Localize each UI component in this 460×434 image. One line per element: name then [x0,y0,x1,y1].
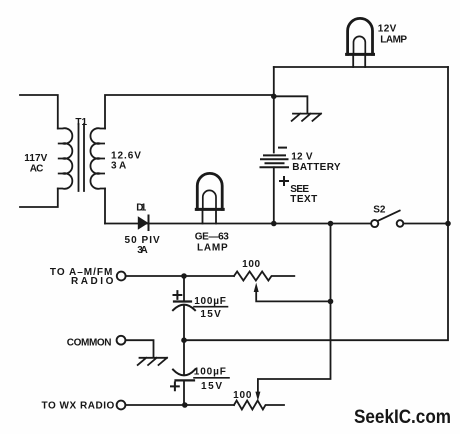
wire ground branch [274,96,308,113]
lamp 12V leads [353,56,365,67]
junction node wiper-branchB [328,299,334,305]
terminal COMMON [117,336,126,345]
svg-text:15V: 15V [200,309,221,320]
transformer T1 primary winding [58,128,73,189]
svg-text:100: 100 [242,259,260,270]
capacitor C1 100uF [174,300,191,302]
capacitor C2 plus sign [171,383,179,391]
junction node secondary-battery [271,94,277,100]
svg-text:GE—63: GE—63 [195,231,229,242]
junction node common-cap [181,337,187,343]
capacitor C1 value fraction bar [194,306,228,308]
svg-text:LAMP: LAMP [380,35,407,46]
wire battery to main rail [273,167,275,223]
svg-text:100µF: 100µF [194,296,226,307]
lamp 12V envelope [348,18,373,54]
svg-text:COMMON: COMMON [67,337,112,348]
svg-text:BATTERY: BATTERY [292,162,341,173]
battery B1 plates [264,154,285,156]
ground chassis symbol top [292,114,321,121]
svg-text:AC: AC [30,163,44,174]
svg-text:D1: D1 [136,203,147,214]
battery plus sign [280,177,288,185]
wire COMMON lead [125,340,153,357]
capacitor C1 plus sign [174,291,182,299]
switch S2 contact right [397,220,404,227]
wire capacitor rail [183,276,185,405]
lamp GE-63 envelope [197,173,222,209]
resistor R1 100 [234,272,294,281]
svg-text:SeekIC.com: SeekIC.com [354,407,451,428]
svg-text:T1: T1 [75,117,87,128]
lamp GE-63 leads [203,211,217,224]
svg-text:LAMP: LAMP [197,242,228,253]
ground chassis symbol common [138,358,167,365]
wire R1 wiper [256,292,330,302]
wire WX radio line [125,404,234,406]
battery minus sign [279,147,286,149]
wire main rail [105,223,448,225]
svg-text:100: 100 [233,390,252,401]
svg-text:12V: 12V [378,24,397,35]
arrow R2 wiper [255,392,260,401]
svg-text:TEXT: TEXT [290,194,317,205]
junction node WX-cap [182,402,188,408]
junction node AMFM-cap [181,273,187,279]
wire secondary bottom lead [104,189,106,224]
wire right rail [184,67,448,340]
transformer T1 secondary winding [90,128,105,189]
lamp 12V filament [354,36,366,53]
wire top rail with 12V lamp [274,66,448,68]
terminal WX radio [117,401,126,410]
capacitor C2 100uF [173,370,195,376]
svg-text:15V: 15V [201,381,222,392]
resistor R2 100 [234,401,284,410]
lamp GE-63 filament [203,190,216,208]
terminal AM/FM radio [117,272,126,281]
capacitor C2 value fraction bar [194,377,229,379]
switch S2 contact left [371,220,378,227]
transformer T1 core [79,124,85,191]
svg-text:3A: 3A [111,161,126,172]
arrow R1 wiper [254,283,259,292]
svg-text:100µF: 100µF [194,367,226,378]
wire node B vertical [258,224,331,393]
svg-text:S2: S2 [373,205,386,216]
svg-text:3A: 3A [137,245,148,256]
diode D1 cathode bar [148,216,150,231]
svg-text:TO WX RADIO: TO WX RADIO [42,400,115,411]
diode D1 triangle [138,216,149,229]
wire primary top lead [20,95,58,129]
wire secondary top lead to node [105,95,274,129]
wire left vertical from top rail to battery [273,67,275,153]
wire AM/FM radio line [126,275,234,277]
junction node rail-right [445,221,451,227]
switch S2 lever [378,211,400,221]
junction node rail-branchB [328,221,334,227]
junction node battery-rail [271,221,277,227]
wire primary bottom lead [20,189,58,208]
svg-text:RADIO: RADIO [71,276,114,287]
